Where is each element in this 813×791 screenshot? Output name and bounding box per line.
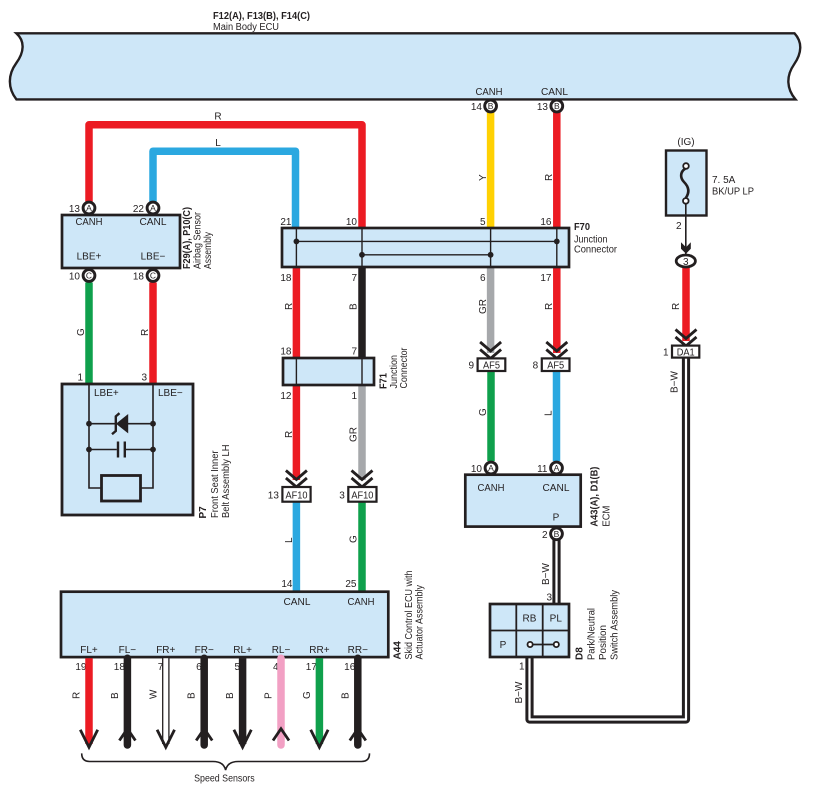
svg-text:10: 10 (471, 464, 483, 475)
arrow chevrons into AF5 pin 9 (480, 342, 501, 359)
junction connector F70 box (282, 228, 569, 267)
svg-text:1: 1 (663, 347, 669, 358)
main body ECU band F12(A), F13(B), F14(C) (10, 33, 800, 99)
svg-text:B: B (110, 692, 121, 699)
speed sensor wire FR+ W (162, 658, 170, 744)
svg-text:B: B (187, 692, 198, 699)
svg-text:D8: D8 (575, 647, 586, 660)
svg-text:CANL: CANL (140, 217, 167, 228)
svg-text:A: A (86, 203, 92, 213)
svg-text:2: 2 (676, 221, 682, 232)
svg-text:14: 14 (471, 102, 483, 113)
svg-text:P: P (553, 513, 560, 524)
zener diode row (89, 423, 153, 425)
bus bar upper (296, 240, 556, 242)
junction 3 ellipse (676, 255, 695, 267)
svg-text:B−W: B−W (514, 681, 525, 704)
svg-text:P: P (264, 692, 275, 699)
svg-text:F12(A), F13(B), F14(C): F12(A), F13(B), F14(C) (213, 11, 310, 22)
svg-text:A43(A), D1(B): A43(A), D1(B) (590, 467, 601, 527)
svg-text:7. 5A: 7. 5A (712, 175, 736, 186)
svg-text:R: R (214, 112, 221, 123)
svg-text:GR: GR (349, 427, 360, 442)
svg-text:B: B (554, 529, 560, 539)
wire B-W (D8 pin 1 to DA1 pin 1 loop) (530, 356, 687, 720)
svg-text:3: 3 (546, 593, 552, 604)
svg-text:CANH: CANH (76, 217, 103, 228)
svg-text:G: G (478, 408, 489, 416)
svg-text:L: L (284, 537, 295, 543)
pin 13 B connector circle (551, 100, 563, 112)
speed sensor wire RR- B (354, 658, 362, 745)
svg-text:W: W (148, 689, 159, 699)
svg-text:AF10: AF10 (351, 491, 373, 502)
svg-text:10: 10 (69, 272, 81, 283)
bus bar lower (362, 254, 491, 256)
airbag sensor pin 18 C circle (147, 270, 159, 282)
svg-text:13: 13 (69, 204, 81, 215)
svg-text:Airbag Sensor: Airbag Sensor (193, 211, 204, 269)
svg-text:GR: GR (478, 299, 489, 314)
svg-text:1: 1 (519, 662, 525, 673)
svg-text:2: 2 (542, 530, 548, 541)
svg-text:G: G (76, 328, 87, 336)
svg-text:8: 8 (533, 360, 539, 371)
svg-text:B−W: B−W (670, 370, 681, 393)
svg-text:6: 6 (480, 273, 486, 284)
svg-text:3: 3 (339, 491, 345, 502)
svg-text:LBE−: LBE− (158, 388, 183, 399)
internal wiring P7 (89, 384, 153, 488)
wire L (AF10 pin 13 to A44 pin 14) (293, 501, 301, 592)
svg-text:RL−: RL− (272, 645, 291, 656)
svg-text:CANL: CANL (543, 483, 570, 494)
svg-text:R: R (544, 303, 555, 310)
arrow chevrons into DA1 (676, 330, 697, 347)
wire B-W (ECM pin 2 to D8 pin 3) (552, 537, 560, 606)
svg-text:L: L (544, 410, 555, 416)
svg-text:AF5: AF5 (547, 360, 564, 371)
svg-text:F70: F70 (574, 222, 590, 233)
svg-text:RB: RB (523, 614, 537, 625)
svg-text:AF5: AF5 (483, 360, 500, 371)
wire G (AF10 pin 3 to A44 pin 25) (358, 501, 366, 592)
svg-text:B: B (488, 101, 494, 111)
speed sensor wire FL- B (124, 658, 132, 745)
svg-text:P7: P7 (198, 506, 209, 519)
speed sensor wire RL+ B (239, 658, 247, 744)
svg-text:R: R (544, 174, 555, 181)
svg-text:1: 1 (351, 391, 357, 402)
svg-text:7: 7 (351, 273, 357, 284)
arrow chevrons into AF5 pin 8 (546, 342, 567, 359)
svg-text:R: R (671, 303, 682, 310)
skid control ECU A44 box (61, 592, 388, 657)
svg-text:B−W: B−W (541, 562, 552, 585)
speed sensor wire FR- B (200, 658, 208, 745)
svg-text:7: 7 (351, 347, 357, 358)
svg-text:FR+: FR+ (156, 645, 175, 656)
svg-text:16: 16 (540, 217, 552, 228)
speed sensor wire RR+ G (316, 658, 324, 744)
wire R (F70 pin 18 to F71 pin 18) (293, 267, 301, 358)
svg-text:18: 18 (280, 347, 292, 358)
svg-text:Position: Position (598, 625, 609, 660)
svg-text:P: P (500, 640, 507, 651)
svg-text:(IG): (IG) (677, 137, 694, 148)
svg-text:RR+: RR+ (309, 645, 329, 656)
wire R (F71 pin 12 to AF10 pin 13) (293, 385, 301, 480)
svg-text:Y: Y (478, 174, 489, 181)
svg-text:3: 3 (141, 373, 147, 384)
fuse BK/UP LP box (666, 151, 707, 216)
svg-text:G: G (302, 691, 313, 699)
svg-text:PL: PL (550, 614, 563, 625)
svg-text:Switch Assembly: Switch Assembly (610, 590, 621, 660)
svg-text:25: 25 (345, 579, 357, 590)
svg-text:13: 13 (268, 491, 280, 502)
svg-text:G: G (349, 535, 360, 543)
svg-text:9: 9 (468, 360, 474, 371)
airbag sensor assembly F29(A), P10(C) box (62, 215, 180, 268)
front seat inner belt assembly P7 box (62, 384, 193, 515)
svg-text:Skid Control ECU with: Skid Control ECU with (404, 571, 415, 660)
capacitor row (89, 449, 153, 451)
wire GR (F70 pin 6 to AF5 pin 9) (487, 267, 495, 353)
svg-text:B: B (340, 692, 351, 699)
svg-text:L: L (215, 138, 221, 149)
svg-text:21: 21 (280, 217, 292, 228)
svg-text:F29(A), P10(C): F29(A), P10(C) (182, 207, 193, 269)
svg-text:CANH: CANH (348, 597, 375, 608)
park/neutral position switch D8 box (490, 604, 569, 657)
connector DA1 (672, 346, 699, 358)
speed sensor wire RL- P (277, 658, 285, 745)
svg-text:R: R (140, 329, 151, 336)
fuse symbol (681, 169, 688, 198)
svg-text:CANL: CANL (284, 597, 311, 608)
svg-text:F71: F71 (379, 373, 390, 389)
svg-text:R: R (284, 431, 295, 438)
wire L horizontal (ECU to airbag pin 22 and F70 pin 21) (153, 151, 296, 228)
svg-text:17: 17 (540, 273, 552, 284)
svg-text:LBE−: LBE− (141, 252, 166, 263)
svg-text:18: 18 (114, 662, 126, 673)
brace speed sensors (82, 753, 370, 770)
wire Y (ECU CANH pin 14 to F70 pin 5) (487, 113, 495, 229)
svg-text:Speed Sensors: Speed Sensors (194, 774, 255, 785)
svg-text:DA1: DA1 (677, 347, 695, 358)
svg-text:18: 18 (133, 272, 145, 283)
switch contacts (533, 644, 554, 646)
connector AF5 pin 9 (478, 358, 506, 371)
resistor box (102, 476, 141, 502)
speed sensor wire FL+ R (85, 658, 93, 744)
connector AF10 pin 13 (282, 487, 310, 502)
arrow chevrons into AF10 pin 13 (286, 471, 307, 488)
wire R (F70 pin 17 to AF5 pin 8) (553, 267, 561, 353)
svg-text:CANH: CANH (476, 87, 503, 98)
svg-text:C: C (150, 271, 156, 281)
svg-text:Belt Assembly LH: Belt Assembly LH (221, 445, 232, 519)
wire L (AF5 pin 8 to ECM pin 11) (553, 371, 561, 461)
arrow chevrons into AF10 pin 3 (352, 471, 373, 488)
wire B (F70 pin 7 to F71 pin 7) (358, 267, 366, 358)
pin 14 B connector circle (485, 100, 497, 112)
connector AF5 pin 8 (542, 358, 570, 371)
zener diode (116, 414, 128, 433)
svg-text:3: 3 (683, 257, 689, 268)
svg-text:14: 14 (281, 579, 293, 590)
svg-text:Connector: Connector (399, 347, 410, 389)
ECM pin 10 A circle (485, 462, 497, 474)
svg-text:5: 5 (480, 217, 486, 228)
svg-text:FL−: FL− (119, 645, 137, 656)
airbag sensor pin 22 A circle (147, 202, 159, 214)
connector AF10 pin 3 (348, 487, 376, 502)
wire R (ECU CANL pin 13 to F70 pin 16) (553, 113, 561, 229)
wire G (airbag pin 10 to P7 pin 1) (85, 283, 93, 386)
ECM A43(A), D1(B) box (465, 475, 580, 527)
svg-text:LBE+: LBE+ (77, 252, 102, 263)
svg-text:LBE+: LBE+ (94, 388, 119, 399)
svg-text:B: B (349, 303, 360, 310)
svg-text:A: A (488, 463, 494, 473)
airbag sensor pin 13 A circle (83, 202, 95, 214)
svg-text:18: 18 (280, 273, 292, 284)
airbag sensor pin 10 C circle (83, 270, 95, 282)
svg-text:R: R (72, 692, 83, 699)
svg-text:13: 13 (537, 102, 549, 113)
svg-text:19: 19 (75, 662, 87, 673)
svg-text:R: R (284, 303, 295, 310)
svg-text:A: A (554, 463, 560, 473)
svg-text:1: 1 (77, 373, 83, 384)
wire R (junction 3 to DA1 pin 1) (682, 268, 690, 341)
fuse lead to pin 2 (685, 204, 687, 216)
wire G (AF5 pin 9 to ECM pin 10) (487, 371, 495, 461)
svg-text:Main Body ECU: Main Body ECU (213, 22, 279, 33)
wire GR (F71 pin 1 to AF10 pin 3) (358, 385, 366, 480)
svg-text:FL+: FL+ (80, 645, 98, 656)
svg-text:11: 11 (537, 464, 548, 475)
svg-text:Front Seat Inner: Front Seat Inner (210, 450, 221, 518)
svg-text:A44: A44 (393, 641, 404, 660)
arrowhead (fuse feed) (681, 242, 691, 254)
svg-text:Actuator Assembly: Actuator Assembly (415, 585, 426, 660)
wire thin (fuse pin 2 to junction 3) (685, 215, 687, 256)
svg-text:16: 16 (344, 662, 356, 673)
svg-text:FR−: FR− (195, 645, 214, 656)
svg-text:B: B (225, 692, 236, 699)
wire R (airbag pin 18 to P7 pin 3) (149, 283, 157, 386)
svg-text:22: 22 (133, 204, 145, 215)
svg-text:Connector: Connector (574, 244, 618, 255)
svg-text:AF10: AF10 (286, 491, 308, 502)
svg-text:12: 12 (280, 391, 292, 402)
svg-text:17: 17 (306, 662, 318, 673)
ECM pin 2 B circle (551, 528, 563, 540)
svg-text:RL+: RL+ (233, 645, 252, 656)
svg-text:A: A (150, 203, 156, 213)
svg-text:BK/UP LP: BK/UP LP (712, 187, 754, 198)
svg-text:B: B (554, 101, 560, 111)
svg-text:C: C (86, 271, 92, 281)
svg-text:Assembly: Assembly (203, 232, 214, 269)
wire R horizontal (ECU to airbag pin 13 and F70 pin 10) (89, 125, 362, 228)
svg-text:Park/Neutral: Park/Neutral (587, 608, 598, 660)
svg-text:CANH: CANH (478, 483, 505, 494)
svg-text:10: 10 (346, 217, 358, 228)
svg-text:RR−: RR− (348, 645, 368, 656)
ECM pin 11 A circle (551, 462, 563, 474)
svg-text:CANL: CANL (541, 87, 568, 98)
svg-text:ECM: ECM (602, 506, 613, 527)
